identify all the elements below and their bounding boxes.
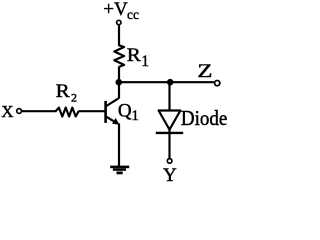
svg-text:Q: Q — [118, 101, 132, 122]
svg-text:Diode: Diode — [181, 107, 228, 130]
svg-text:1: 1 — [141, 53, 149, 70]
svg-text:1: 1 — [131, 108, 139, 124]
svg-text:2: 2 — [71, 91, 77, 105]
svg-text:cc: cc — [127, 7, 139, 22]
svg-text:+V: +V — [103, 0, 128, 20]
svg-text:Z: Z — [197, 60, 212, 82]
svg-text:R: R — [56, 81, 71, 102]
svg-text:Y: Y — [163, 165, 177, 184]
svg-text:X: X — [1, 102, 13, 121]
svg-text:R: R — [127, 45, 142, 66]
